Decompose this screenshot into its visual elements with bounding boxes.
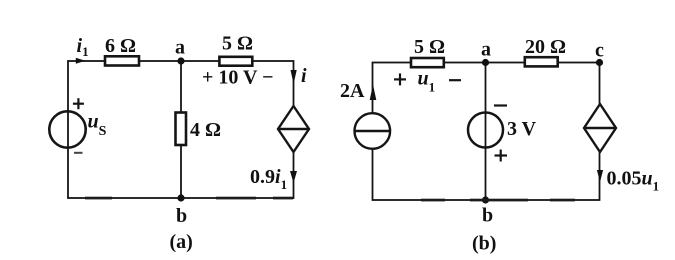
svg-text:2A: 2A	[340, 80, 365, 102]
svg-text:uS: uS	[88, 111, 107, 140]
svg-text:i: i	[301, 65, 307, 87]
svg-text:0.05u1: 0.05u1	[607, 168, 660, 194]
svg-text:b: b	[482, 205, 493, 227]
svg-text:(b): (b)	[472, 233, 496, 255]
svg-text:+ 10 V −: + 10 V −	[202, 67, 274, 89]
svg-text:u1: u1	[418, 68, 436, 95]
svg-text:6 Ω: 6 Ω	[105, 35, 136, 57]
svg-text:c: c	[595, 40, 604, 62]
svg-text:5 Ω: 5 Ω	[414, 36, 445, 58]
svg-text:20 Ω: 20 Ω	[525, 36, 566, 58]
svg-text:(a): (a)	[170, 231, 193, 253]
svg-text:4 Ω: 4 Ω	[190, 119, 221, 141]
svg-text:3 V: 3 V	[507, 118, 537, 140]
svg-text:5 Ω: 5 Ω	[222, 33, 253, 55]
svg-text:a: a	[481, 39, 491, 61]
svg-text:i1: i1	[77, 35, 89, 59]
svg-text:b: b	[176, 205, 187, 227]
svg-text:a: a	[175, 37, 185, 59]
svg-text:0.9i1: 0.9i1	[250, 166, 287, 192]
